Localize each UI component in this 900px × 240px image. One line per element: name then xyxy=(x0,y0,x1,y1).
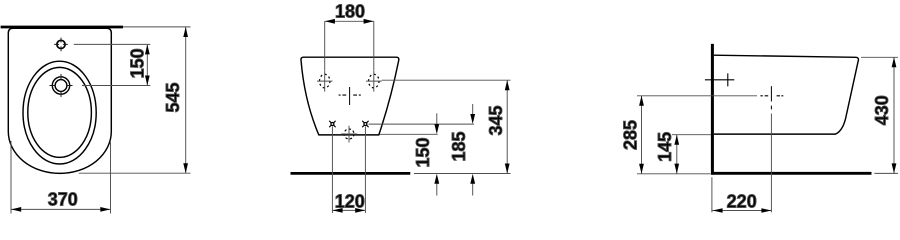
label 150 (rear) xyxy=(413,137,433,167)
leader basin hole xyxy=(82,85,150,87)
extension line 220 left xyxy=(711,177,713,212)
svg-text:180: 180 xyxy=(335,2,365,22)
svg-text:545: 545 xyxy=(163,82,183,112)
centre mark xyxy=(339,87,361,105)
label 185 xyxy=(449,131,469,161)
basin drain hole xyxy=(50,74,73,97)
extension line 145 top xyxy=(672,134,711,136)
extension line 370 left xyxy=(10,141,12,214)
small hole left xyxy=(329,121,335,127)
dimension 120 xyxy=(332,208,365,213)
floor extension line right xyxy=(414,173,511,175)
drain centreline (dash-dot cross) xyxy=(760,86,783,212)
svg-text:145: 145 xyxy=(655,132,675,162)
label 545 xyxy=(163,82,183,112)
wall line (thick, plan view top) xyxy=(1,26,123,29)
floor line (thick, side view) xyxy=(711,172,872,175)
label 370 xyxy=(48,190,78,210)
extension line 180 left xyxy=(324,21,326,70)
dimension 150 (plan) xyxy=(145,44,150,85)
leader bottom edge xyxy=(380,133,438,135)
label 220 xyxy=(727,192,757,212)
extension line 430 top xyxy=(861,56,898,58)
dimension 220 xyxy=(712,208,771,213)
dimension 430 xyxy=(892,57,897,173)
dimension 185 xyxy=(470,104,475,196)
extension line 545 bottom xyxy=(79,172,191,174)
bidet side profile xyxy=(714,55,859,134)
extension line 180 right xyxy=(373,21,375,70)
bidet rear outline xyxy=(301,57,399,135)
svg-text:150: 150 xyxy=(128,48,148,78)
dimension 545 xyxy=(183,27,188,173)
dimension 370 xyxy=(11,207,111,212)
label 180 xyxy=(335,2,365,22)
leader small holes xyxy=(369,123,475,125)
fixing hole left xyxy=(317,71,333,92)
label 285 xyxy=(621,120,641,150)
dimension 345 xyxy=(505,80,510,173)
floor line (thick) xyxy=(291,172,411,175)
fixing hole mark side xyxy=(705,73,734,86)
svg-text:430: 430 xyxy=(872,95,892,125)
extension line 120 left xyxy=(331,127,333,214)
basin inner rim xyxy=(28,67,92,157)
basin outer rim xyxy=(23,61,96,164)
svg-text:220: 220 xyxy=(727,192,757,212)
dimension 285 xyxy=(639,96,644,174)
extension line 545 top xyxy=(123,26,191,28)
dimension 150 (rear) xyxy=(434,113,439,195)
label 150 (plan) xyxy=(128,48,148,78)
extension line 370 right xyxy=(110,142,112,214)
dimension 180 xyxy=(325,19,374,24)
extension line 285-145 bottom xyxy=(637,173,711,175)
fixing hole right xyxy=(366,71,382,92)
svg-text:150: 150 xyxy=(413,137,433,167)
label 145 xyxy=(655,132,675,162)
label 345 xyxy=(486,105,506,135)
drain hole rear (dashed) xyxy=(341,126,357,143)
leader fixing hole right xyxy=(382,79,511,81)
svg-text:345: 345 xyxy=(486,105,506,135)
tap hole xyxy=(54,38,68,52)
extension line 120 right xyxy=(364,127,366,214)
leader tap hole xyxy=(74,43,151,45)
wall line (thick, side view) xyxy=(711,44,714,175)
label 430 xyxy=(872,95,892,125)
extension line 430 bottom (floor) xyxy=(874,172,898,174)
small hole right xyxy=(362,121,368,127)
bidet outline plan xyxy=(8,28,111,173)
svg-text:285: 285 xyxy=(621,120,641,150)
svg-text:120: 120 xyxy=(335,191,365,211)
label 120 xyxy=(335,191,365,211)
leader drain to 285 xyxy=(637,95,757,97)
svg-text:185: 185 xyxy=(449,131,469,161)
svg-text:370: 370 xyxy=(48,190,78,210)
dimension 145 xyxy=(674,135,679,174)
